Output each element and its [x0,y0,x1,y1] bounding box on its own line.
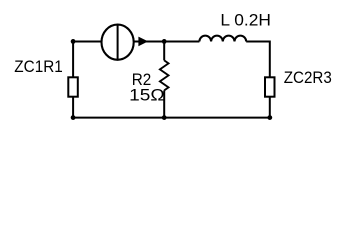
wire: node A down to ZC1R1 [72,42,74,78]
junction dot node B (R2 top) [162,39,167,44]
junction dot bottom-right [267,115,272,120]
current source U1 (circle with vertical bar) [102,25,134,60]
wire: node B to inductor [164,41,199,43]
svg-text:ZC1R1: ZC1R1 [14,57,63,76]
wire: inductor to top-right corner and down to ZC2R3 [246,42,270,78]
arrow on output wire [138,37,148,47]
svg-text:ZC2R3: ZC2R3 [284,68,332,87]
wire: bottom rail [73,117,270,119]
wire: ZC2R3 to bottom rail [269,97,271,118]
resistor ZC1R1 (box) [68,77,78,96]
resistor R2 (zigzag) [160,60,169,90]
resistor ZC2R3 (box) [265,77,275,96]
svg-text:15Ω: 15Ω [129,86,165,105]
inductor L1 [199,36,246,42]
junction dot R2 bottom [162,115,167,120]
wire: node B down to R2 [163,42,165,61]
wire: R2 to bottom rail [163,90,165,117]
svg-text:L 0.2H: L 0.2H [220,11,271,30]
wire: top rail left segment (node A to current source) [73,41,102,43]
wire: current source output to node B [134,41,165,43]
junction dot node A top-left [71,39,76,44]
junction dot bottom-left [71,115,76,120]
wire: ZC1R1 to bottom rail [72,97,74,118]
